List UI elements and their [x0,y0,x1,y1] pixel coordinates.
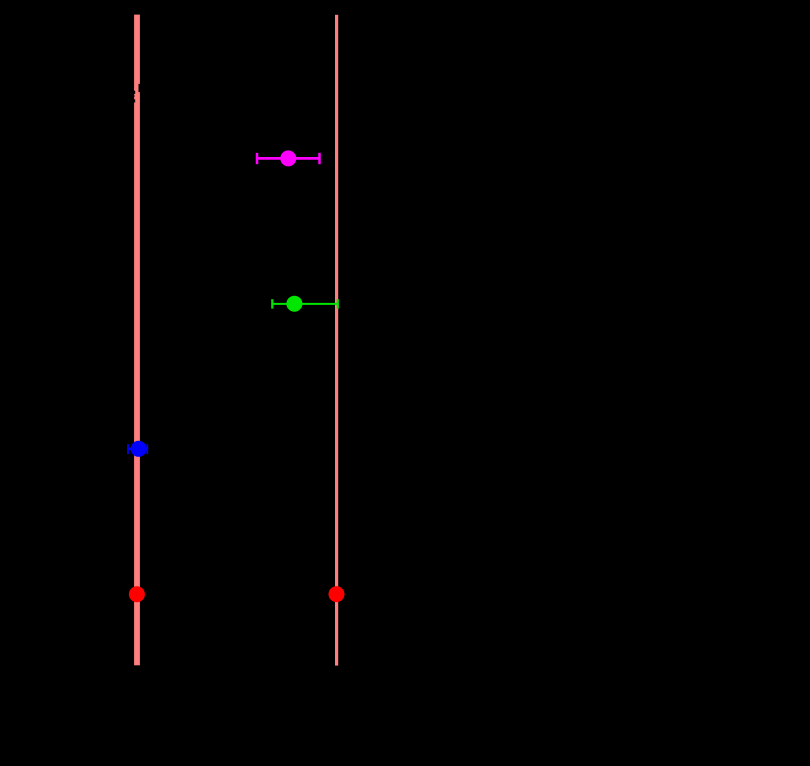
reference line 2 (salmon) [335,15,338,666]
magenta errorbar [257,153,320,164]
black text bites over line 1 [132,84,142,103]
blue errorbar [128,444,147,454]
red marker 1 [129,586,145,602]
magenta marker [280,150,296,166]
blue marker [131,441,147,457]
red marker 2 [329,586,345,602]
reference line 1 (salmon) [134,15,140,666]
green errorbar [272,299,338,308]
green marker [286,296,302,312]
